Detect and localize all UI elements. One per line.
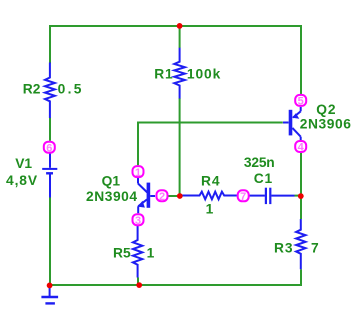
wire R5 to bottom rail xyxy=(137,278,139,286)
wire left rail mid xyxy=(49,118,51,141)
svg-text:3: 3 xyxy=(135,215,141,227)
svg-text:5: 5 xyxy=(298,96,304,108)
svg-text:1: 1 xyxy=(135,167,141,179)
svg-text:Q1: Q1 xyxy=(102,173,121,188)
node dot R5 bottom xyxy=(136,282,142,288)
node dot base junction xyxy=(177,193,183,199)
svg-text:2: 2 xyxy=(159,191,165,203)
resistor R5 xyxy=(133,226,142,278)
svg-text:7: 7 xyxy=(311,240,320,255)
svg-text:100k: 100k xyxy=(187,67,221,82)
svg-text:4,8V: 4,8V xyxy=(6,173,38,188)
wire bottom rail xyxy=(49,269,301,285)
svg-text:R2: R2 xyxy=(23,82,41,97)
resistor R2 xyxy=(45,63,55,119)
svg-text:2N3904: 2N3904 xyxy=(86,189,138,204)
svg-text:1: 1 xyxy=(147,246,156,261)
wire right rail marker4 to node xyxy=(300,153,302,219)
wire Q1 base to node xyxy=(168,195,180,197)
svg-text:6: 6 xyxy=(46,142,52,154)
svg-text:4: 4 xyxy=(298,142,305,154)
svg-text:2N3906: 2N3906 xyxy=(300,116,352,131)
svg-text:R1: R1 xyxy=(154,67,173,82)
svg-text:Q2: Q2 xyxy=(316,102,336,117)
marker 1 xyxy=(133,166,144,179)
node dot top R1 xyxy=(177,23,183,29)
wire R1 bottom to node xyxy=(179,98,181,196)
marker 5 xyxy=(295,95,306,108)
node dot C1/R3 junction xyxy=(298,193,304,199)
marker 2 xyxy=(157,190,168,203)
marker 7 xyxy=(238,190,249,203)
svg-text:1: 1 xyxy=(206,202,215,217)
wire top rail xyxy=(50,26,301,95)
svg-text:R3: R3 xyxy=(274,240,293,255)
marker 6 xyxy=(44,142,55,155)
marker 3 xyxy=(133,214,144,227)
svg-text:7: 7 xyxy=(240,191,246,203)
svg-text:325n: 325n xyxy=(244,155,275,170)
svg-text:0.5: 0.5 xyxy=(58,82,84,97)
svg-text:R4: R4 xyxy=(201,174,220,189)
resistor R1 xyxy=(174,48,185,99)
svg-text:V1: V1 xyxy=(15,156,32,171)
node dot ground corner xyxy=(47,283,53,289)
wire R1 top xyxy=(179,26,181,48)
battery V1 xyxy=(49,153,51,168)
svg-text:R5: R5 xyxy=(113,246,131,261)
resistor R3 xyxy=(296,219,305,269)
transistor Q1 xyxy=(138,178,155,213)
capacitor C1 xyxy=(249,195,265,197)
transistor Q2 xyxy=(283,107,301,140)
marker 4 xyxy=(295,141,306,154)
svg-text:C1: C1 xyxy=(254,171,273,186)
wire left rail bottom xyxy=(49,197,51,286)
resistor R4 xyxy=(181,192,237,200)
ground xyxy=(49,287,51,296)
wire Q1 collector to Q2 base xyxy=(138,123,283,166)
